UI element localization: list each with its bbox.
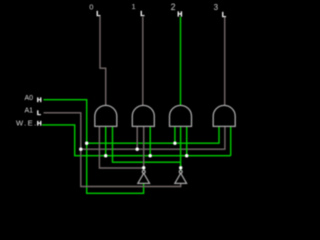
svg-text:2: 2	[171, 2, 176, 12]
svg-text:H: H	[37, 121, 42, 128]
svg-text:L: L	[37, 110, 41, 117]
svg-text:0: 0	[89, 3, 93, 12]
svg-text:A0: A0	[25, 95, 34, 102]
svg-text:3: 3	[214, 3, 219, 12]
svg-text:1: 1	[132, 2, 136, 11]
svg-text:L: L	[140, 9, 145, 18]
svg-text:H: H	[37, 97, 42, 104]
svg-text:L: L	[96, 9, 101, 18]
svg-text:A1: A1	[25, 108, 34, 115]
svg-text:H: H	[177, 10, 182, 19]
svg-text:L: L	[222, 10, 227, 19]
svg-text:W.E.: W.E.	[16, 119, 38, 128]
